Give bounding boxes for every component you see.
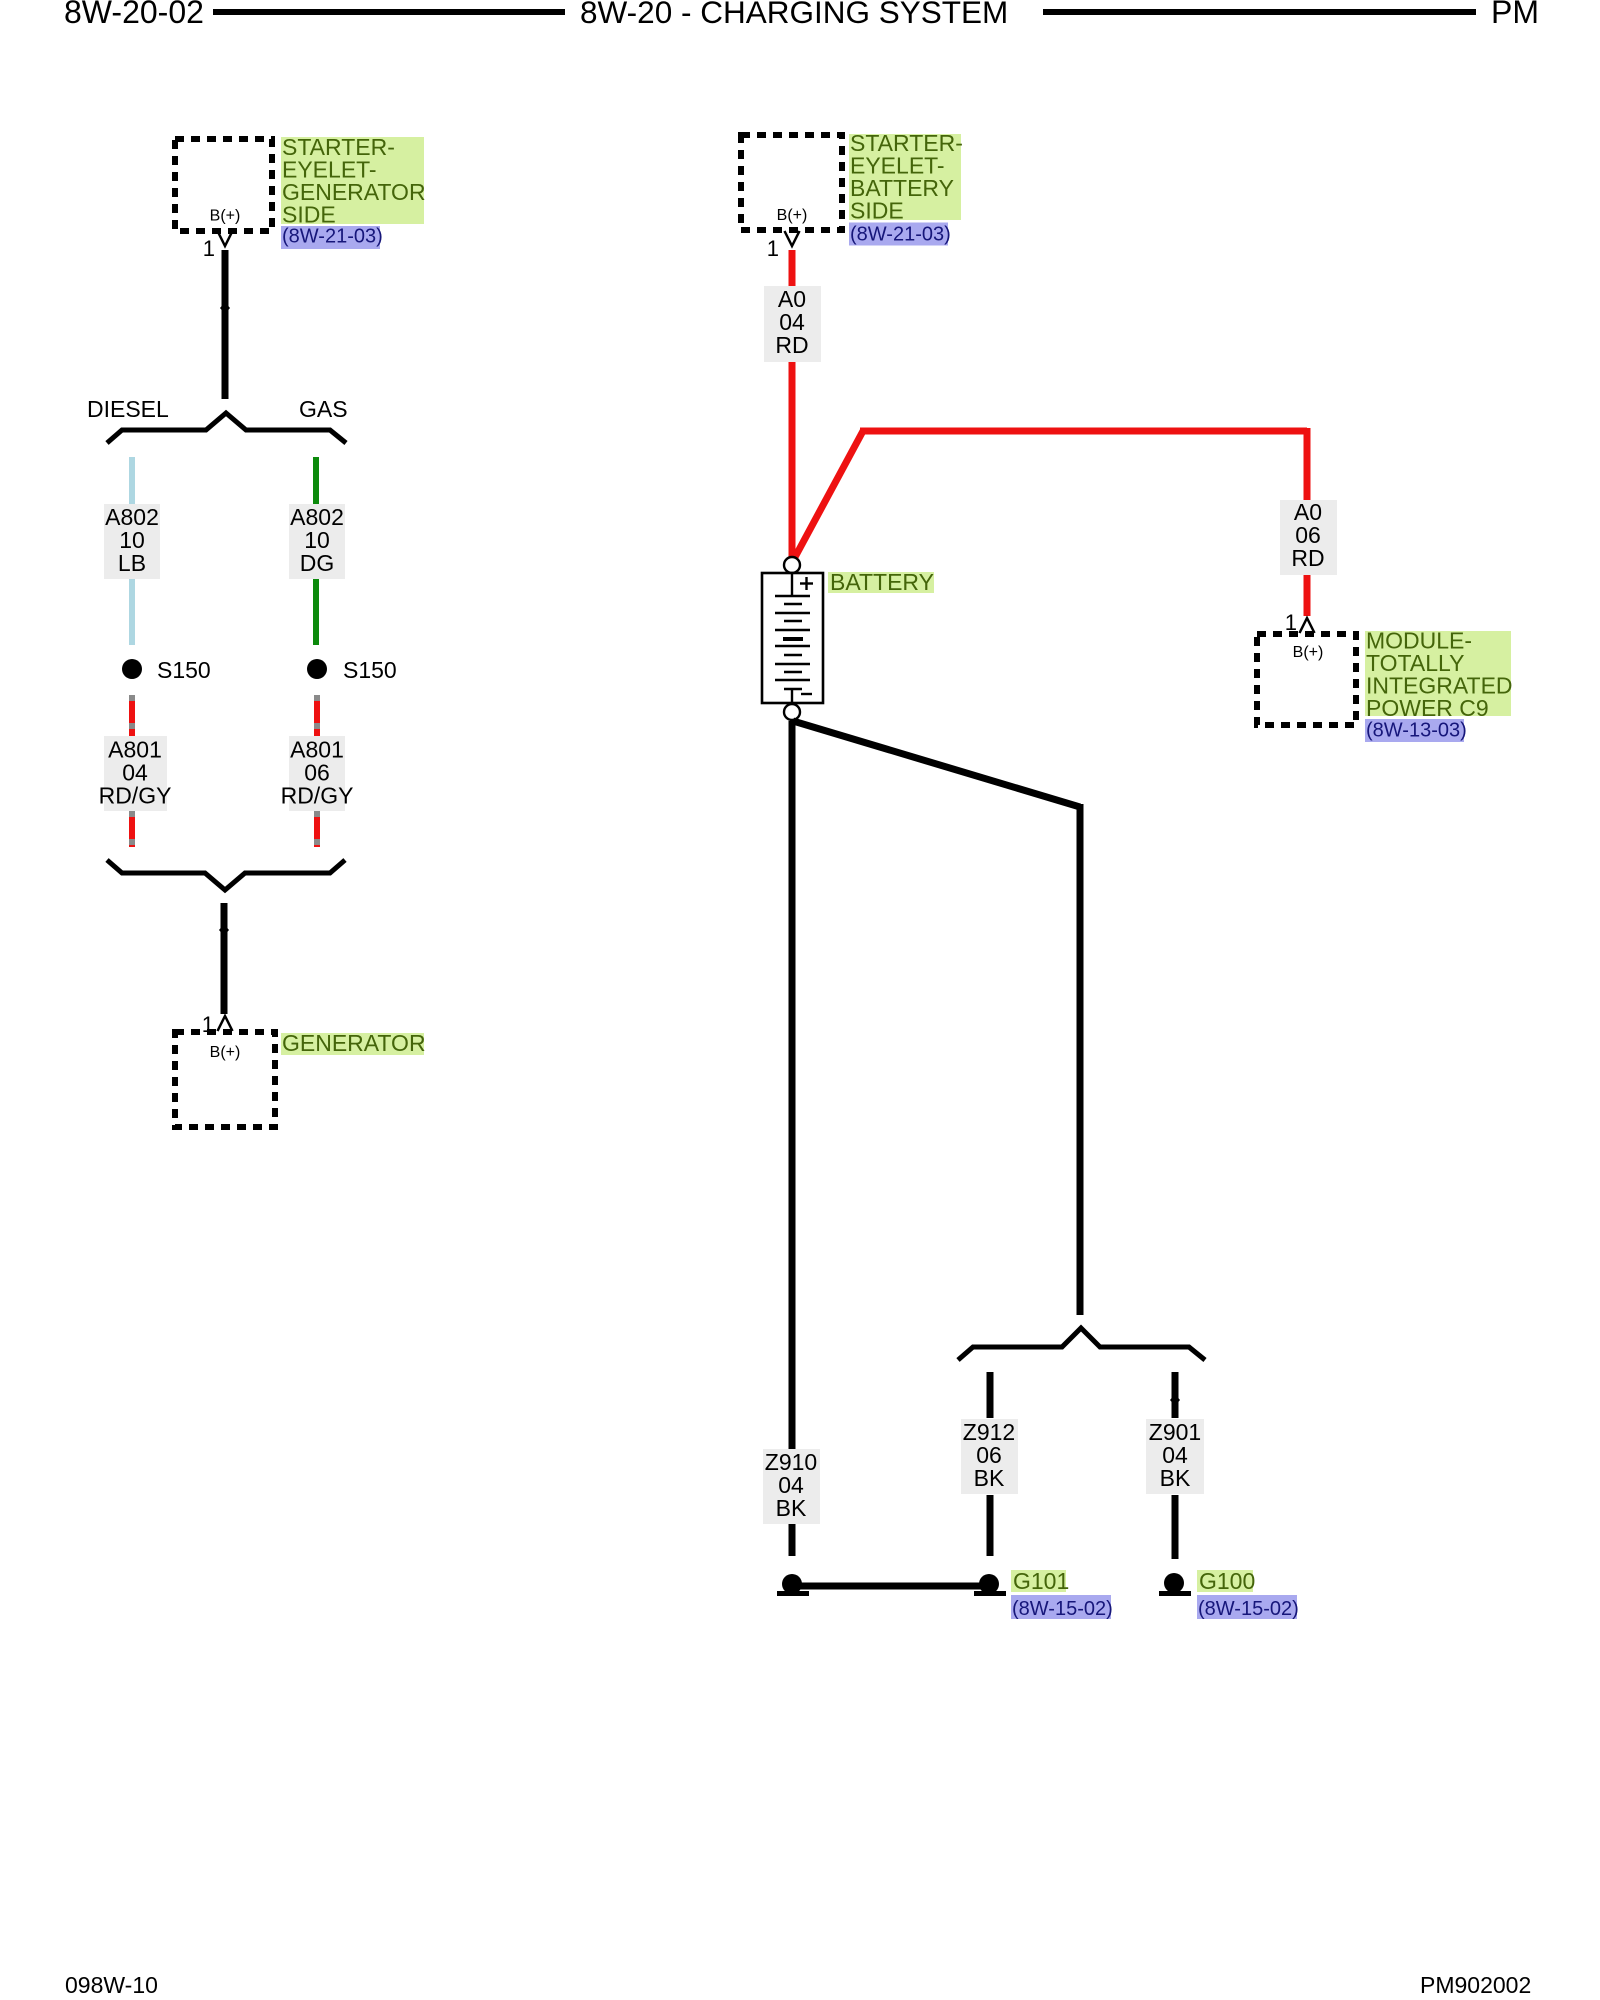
svg-text:BK: BK: [776, 1495, 807, 1521]
wire Z912 lower: [987, 1495, 994, 1556]
wire A0 06 RD red horizontal: [860, 428, 1307, 435]
battery positive terminal circle: [784, 557, 800, 573]
svg-text:RD/GY: RD/GY: [281, 783, 354, 809]
label A0 06 RD: [1280, 500, 1337, 575]
ground symbol left: [782, 1574, 802, 1594]
svg-text:PM902002: PM902002: [1420, 1972, 1531, 1998]
svg-text:RD: RD: [1291, 545, 1324, 571]
label module totally integrated power green highlight: [1365, 631, 1511, 716]
header rule left: [213, 9, 565, 15]
wire diagonal battery negative to right branch: [793, 721, 1080, 807]
svg-text:GAS: GAS: [299, 396, 348, 422]
svg-text:SIDE: SIDE: [850, 198, 904, 224]
connector generator (dashed box): [175, 1032, 275, 1127]
wire brace to generator: [221, 903, 228, 1014]
connector starter-eyelet-battery-side (dashed box): [741, 135, 842, 230]
wire Z901 upper: [1172, 1372, 1179, 1418]
svg-text:B(+): B(+): [210, 1044, 241, 1061]
label A802 10 DG: [289, 504, 345, 579]
label starter-eyelet-generator-side green highlight: [281, 137, 424, 224]
wire Z912 upper: [987, 1372, 994, 1418]
svg-text:S150: S150: [343, 657, 397, 683]
label (8W-21-03) right blue highlight: [849, 223, 948, 246]
svg-text:BK: BK: [1160, 1465, 1191, 1491]
svg-text:S150: S150: [157, 657, 211, 683]
wire A801 06 RD/GY lower segment right: [314, 811, 320, 847]
ground symbol G101: [979, 1574, 999, 1594]
label Z912 06 BK: [961, 1419, 1018, 1494]
label GENERATOR green highlight: [281, 1033, 424, 1055]
splice tick on Z901 wire: [1170, 1394, 1180, 1406]
wire A801 06 RD/GY upper segment right: [314, 695, 320, 736]
svg-text:BATTERY: BATTERY: [830, 569, 934, 595]
svg-text:RD: RD: [775, 332, 808, 358]
svg-text:G100: G100: [1199, 1568, 1255, 1594]
label BATTERY green highlight: [828, 572, 934, 593]
wire A801 04 RD/GY upper segment left: [129, 695, 135, 736]
svg-text:POWER C9: POWER C9: [1366, 695, 1489, 721]
brace gather to generator: [107, 860, 345, 890]
wire Z910 04 BK battery negative to ground: [789, 721, 796, 1556]
svg-text:B(+): B(+): [210, 208, 241, 225]
connector starter-eyelet-generator-side (dashed box): [175, 139, 272, 231]
label A801 04 RD/GY left: [104, 736, 167, 811]
label Z910 04 BK: [763, 1449, 820, 1524]
svg-text:(8W-15-02): (8W-15-02): [1012, 1598, 1113, 1620]
connector module TIPM (dashed box): [1257, 634, 1356, 725]
svg-text:(8W-15-02): (8W-15-02): [1198, 1598, 1299, 1620]
pin symbol module: [1300, 618, 1315, 633]
svg-text:DG: DG: [300, 550, 335, 576]
wire vertical right branch: [1077, 804, 1084, 1315]
pin symbol V left connector: [218, 231, 233, 246]
label (8W-21-03) left blue highlight: [281, 226, 380, 249]
svg-text:BK: BK: [974, 1465, 1005, 1491]
ground wire horizontal: [793, 1583, 989, 1590]
wire from left connector down: [222, 250, 229, 399]
label (8W-13-03) blue highlight: [1365, 719, 1464, 742]
svg-text:PM: PM: [1491, 0, 1539, 30]
splice tick on wire: [220, 302, 230, 314]
wire A0 04 RD red from connector to battery: [789, 250, 796, 557]
ground symbol G100: [1164, 1573, 1184, 1593]
splice S150 diesel: [122, 659, 142, 679]
svg-text:GENERATOR: GENERATOR: [282, 1030, 426, 1056]
svg-text:098W-10: 098W-10: [65, 1972, 158, 1998]
svg-text:LB: LB: [118, 550, 146, 576]
label A0 04 RD: [764, 286, 821, 362]
svg-text:8W-20 - CHARGING SYSTEM: 8W-20 - CHARGING SYSTEM: [580, 0, 1008, 30]
wire A0 06 RD red diagonal from battery junction: [794, 431, 863, 559]
svg-text:RD/GY: RD/GY: [99, 783, 172, 809]
svg-text:(8W-21-03): (8W-21-03): [282, 226, 383, 248]
svg-text:B(+): B(+): [777, 207, 808, 224]
battery body: [762, 573, 823, 703]
wire Z901 lower: [1172, 1495, 1179, 1559]
splice tick on wire: [219, 924, 229, 936]
label Z901 04 BK: [1146, 1419, 1204, 1494]
label (8W-15-02) G101 blue: [1011, 1595, 1111, 1619]
wire A802 10 LB light blue: [129, 457, 135, 645]
svg-text:1: 1: [767, 236, 779, 261]
wire A801 04 RD/GY lower segment left: [129, 811, 135, 847]
splice S150 gas: [307, 659, 327, 679]
svg-text:(8W-21-03): (8W-21-03): [850, 224, 951, 246]
svg-text:G101: G101: [1013, 1568, 1069, 1594]
svg-text:(8W-13-03): (8W-13-03): [1366, 720, 1467, 742]
label starter-eyelet-battery-side green highlight: [849, 134, 961, 220]
svg-text:B(+): B(+): [1293, 644, 1324, 661]
svg-text:DIESEL: DIESEL: [87, 396, 169, 422]
label A801 06 RD/GY right: [289, 736, 345, 811]
pin symbol generator: [218, 1016, 233, 1031]
pin symbol V right connector: [785, 231, 800, 246]
svg-text:1: 1: [203, 236, 215, 261]
svg-text:8W-20-02: 8W-20-02: [64, 0, 204, 30]
svg-text:SIDE: SIDE: [282, 202, 336, 228]
label G101: [1011, 1570, 1066, 1592]
battery negative terminal circle: [784, 704, 800, 720]
label A802 10 LB: [104, 504, 160, 579]
header rule right: [1043, 9, 1476, 15]
wire A802 10 DG dark green: [313, 457, 319, 645]
label G100: [1197, 1570, 1253, 1592]
label (8W-15-02) G100 blue: [1197, 1595, 1297, 1619]
brace split diesel/gas: [107, 413, 346, 443]
wire A0 06 RD red vertical to module: [1304, 428, 1311, 616]
brace split grounds: [958, 1328, 1205, 1360]
